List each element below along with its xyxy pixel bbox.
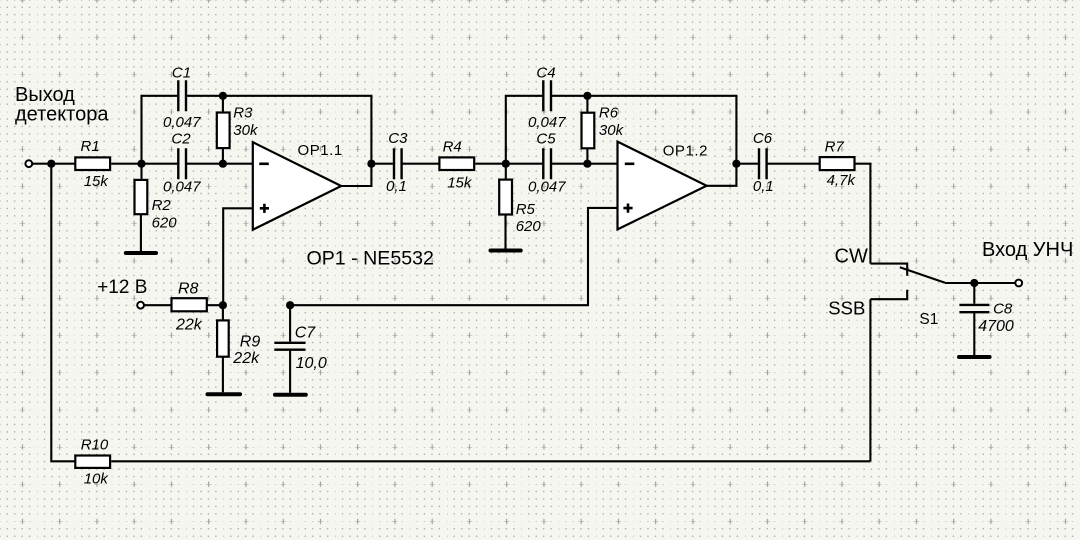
wire switch common node to C8 top plate bbox=[973, 283, 975, 304]
wire R6 top lead bbox=[586, 96, 588, 112]
capacitor C2 bbox=[178, 148, 186, 179]
wire R3 bottom lead to main row bbox=[222, 149, 224, 164]
wire node D to C3 bbox=[371, 163, 393, 165]
ground below R5 bbox=[491, 249, 521, 253]
resistor R9 bbox=[217, 320, 229, 356]
node H OP1.2 output junction bbox=[732, 160, 740, 168]
node R3 bottom junction bbox=[219, 160, 227, 168]
resistor R6 bbox=[582, 113, 595, 149]
ground below R9 bbox=[208, 392, 241, 396]
svg-text:CW: CW bbox=[835, 246, 868, 268]
svg-text:C6: C6 bbox=[753, 130, 773, 147]
capacitor C3 bbox=[394, 148, 402, 179]
svg-text:22k: 22k bbox=[175, 317, 203, 334]
svg-text:R9: R9 bbox=[240, 333, 261, 350]
op-amp OP1.1 bbox=[253, 142, 341, 230]
svg-text:C5: C5 bbox=[536, 131, 556, 148]
wire C2 right to op-amp minus input bbox=[187, 163, 253, 165]
wire R9 bottom to ground bbox=[222, 357, 224, 393]
svg-text:0,047: 0,047 bbox=[163, 114, 201, 131]
svg-text:C7: C7 bbox=[295, 324, 317, 341]
wire R4 right to node E to C5 bbox=[475, 163, 542, 165]
svg-text:30k: 30k bbox=[233, 122, 259, 139]
wire node E down to R5 bbox=[505, 164, 507, 180]
svg-text:620: 620 bbox=[516, 218, 542, 235]
capacitor C4 bbox=[543, 80, 551, 111]
svg-text:R8: R8 bbox=[178, 281, 199, 298]
svg-text:C4: C4 bbox=[536, 65, 555, 82]
svg-text:Вход УНЧ: Вход УНЧ bbox=[982, 239, 1073, 261]
svg-text:22k: 22k bbox=[232, 350, 260, 367]
capacitor C5 bbox=[543, 148, 551, 179]
node G R6 top junction bbox=[583, 92, 591, 100]
resistor R4 bbox=[439, 157, 474, 170]
wire R7 right then down to switch CW contact bbox=[855, 164, 870, 264]
wire R10 right to switch SSB branch vertical bbox=[111, 460, 870, 462]
terminal output right bbox=[1015, 280, 1022, 287]
node E R4/R5/C4 junction bbox=[502, 160, 510, 168]
wire C7 bottom plate to ground bbox=[289, 351, 291, 393]
wire C8 bottom plate to ground bbox=[973, 313, 975, 355]
terminal +12V bbox=[137, 302, 144, 309]
wire node J down to C7 top plate bbox=[289, 305, 291, 341]
wire OP1.2 output bbox=[707, 164, 737, 186]
svg-text:R7: R7 bbox=[825, 138, 845, 155]
svg-text:0,047: 0,047 bbox=[163, 178, 201, 195]
wire R8 right to node I bbox=[207, 304, 223, 306]
capacitor C1 bbox=[178, 80, 186, 111]
svg-text:SSB: SSB bbox=[828, 298, 865, 319]
svg-text:R5: R5 bbox=[516, 201, 536, 218]
node D OP1.1 output junction bbox=[367, 160, 375, 168]
svg-text:620: 620 bbox=[152, 215, 178, 232]
resistor R8 bbox=[172, 298, 207, 311]
node B R1/R2/C1 junction bbox=[137, 160, 145, 168]
svg-text:15k: 15k bbox=[447, 174, 473, 191]
capacitor C6 bbox=[759, 148, 767, 179]
svg-text:OP1 - NE5532: OP1 - NE5532 bbox=[307, 247, 434, 269]
svg-text:10,0: 10,0 bbox=[296, 355, 327, 372]
svg-text:OP1.2: OP1.2 bbox=[663, 142, 708, 159]
svg-text:C3: C3 bbox=[388, 130, 408, 147]
svg-text:C2: C2 bbox=[171, 131, 191, 148]
wire R1 to C2 with node B passthrough bbox=[111, 163, 177, 165]
wire main row input bbox=[32, 163, 75, 165]
wire node H to C6 bbox=[736, 163, 758, 165]
switch S1 bbox=[870, 264, 1015, 462]
wire R6 bottom lead bbox=[586, 149, 588, 164]
capacitor C7 bbox=[274, 343, 305, 350]
wire node B vertical up to feedback row 1 bbox=[142, 96, 178, 164]
node I R8/R9 junction bbox=[219, 301, 227, 309]
ground below R2 bbox=[126, 251, 156, 255]
wire left vertical from node A down to R10 row bbox=[51, 164, 75, 462]
wire C1 right plate to node C to OP1.1 output vertical bbox=[187, 96, 372, 164]
ground below C8 bbox=[959, 355, 990, 359]
svg-text:R3: R3 bbox=[233, 104, 253, 121]
resistor R2 bbox=[135, 180, 148, 214]
resistor R5 bbox=[499, 180, 512, 215]
svg-text:+12 В: +12 В bbox=[97, 277, 147, 298]
wire C3 right to R4 bbox=[403, 163, 440, 165]
svg-text:30k: 30k bbox=[599, 122, 625, 139]
svg-text:R6: R6 bbox=[599, 104, 619, 121]
svg-text:C8: C8 bbox=[993, 300, 1013, 317]
svg-text:детектора: детектора bbox=[15, 104, 109, 126]
wire C5 right to node F to OP1.2 minus input bbox=[552, 163, 618, 165]
svg-text:C1: C1 bbox=[172, 65, 191, 82]
resistor R10 bbox=[75, 456, 110, 468]
ground below C7 bbox=[275, 393, 306, 397]
op-amp OP1.2 bbox=[618, 142, 707, 230]
wire OP1.1 output bbox=[341, 164, 371, 186]
resistor R3 bbox=[217, 113, 230, 149]
capacitor C8 bbox=[959, 305, 989, 312]
svg-text:0,1: 0,1 bbox=[753, 178, 774, 195]
svg-text:15k: 15k bbox=[84, 173, 110, 190]
terminal input left bbox=[25, 160, 32, 167]
svg-text:OP1.1: OP1.1 bbox=[298, 142, 343, 159]
svg-text:4700: 4700 bbox=[978, 318, 1014, 335]
svg-text:4,7k: 4,7k bbox=[827, 172, 857, 189]
svg-text:0,047: 0,047 bbox=[528, 114, 566, 131]
resistor R7 bbox=[820, 157, 855, 170]
node A input junction bbox=[47, 160, 55, 168]
resistor R1 bbox=[75, 157, 110, 170]
svg-text:0,047: 0,047 bbox=[528, 178, 566, 195]
svg-text:0,1: 0,1 bbox=[386, 178, 407, 195]
svg-text:S1: S1 bbox=[919, 311, 938, 328]
svg-text:R2: R2 bbox=[152, 197, 172, 214]
node J C7 junction bbox=[286, 301, 294, 309]
wire OP1.2 plus input left and down to +12V row bbox=[291, 208, 617, 305]
wire C6 right to R7 bbox=[768, 163, 820, 165]
svg-text:10k: 10k bbox=[84, 471, 110, 488]
svg-text:R10: R10 bbox=[81, 437, 109, 454]
wire OP1.1 plus input left and down to +12V row bbox=[223, 208, 253, 304]
node C R3 top junction bbox=[219, 92, 227, 100]
wire R3 top lead bbox=[222, 96, 224, 112]
wire R2 bottom to ground bbox=[140, 215, 142, 252]
wire C4 right plate to node G to OP1.2 output vertical bbox=[552, 96, 737, 164]
node F R6 bottom junction bbox=[583, 160, 591, 168]
svg-text:R1: R1 bbox=[81, 138, 100, 155]
wire R5 bottom to ground bbox=[504, 215, 506, 249]
svg-text:R4: R4 bbox=[443, 139, 462, 156]
wire +12V terminal to R8 bbox=[144, 304, 171, 306]
wire node B vertical down to R2 bbox=[140, 164, 142, 180]
node K switch common C8 junction bbox=[970, 279, 978, 287]
wire node E vertical up to feedback row 2 bbox=[506, 96, 542, 164]
wire node I down to R9 bbox=[222, 305, 224, 320]
